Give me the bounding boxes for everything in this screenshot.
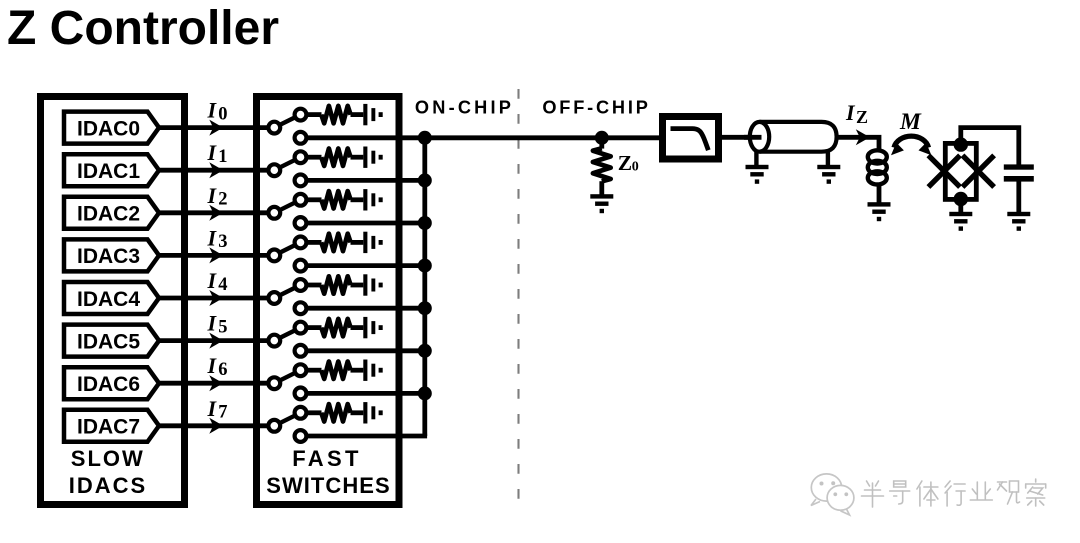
resistor R7 xyxy=(321,404,350,421)
termination bars row 6 xyxy=(363,360,367,381)
ground for capacitor xyxy=(1007,212,1030,216)
capacitor ground stem xyxy=(1016,181,1021,212)
wire into coax center conductor xyxy=(744,135,762,140)
node SQUID top xyxy=(954,137,968,151)
IDAC2 block xyxy=(64,197,159,229)
wire upper throw to resistor R1 xyxy=(307,155,322,160)
svg-text:I: I xyxy=(207,183,218,208)
watermark text (gray emboss) xyxy=(862,479,1046,507)
switch S1 upper throw contact xyxy=(295,151,307,163)
watermark logo (chat bubbles) xyxy=(811,474,854,515)
wire LPF to coax xyxy=(719,135,749,140)
ground coax left shield xyxy=(746,165,769,169)
svg-text:IDAC5: IDAC5 xyxy=(77,330,140,353)
bus junction node row 0 xyxy=(418,131,432,145)
svg-text:FAST: FAST xyxy=(292,446,362,471)
SLOW IDACS block outline xyxy=(41,97,185,505)
termination bars row 3 xyxy=(363,232,367,253)
resistor R5 xyxy=(321,319,350,336)
wire IDAC5 output to switch S5 pole xyxy=(157,338,268,343)
IDAC6 block xyxy=(64,367,159,399)
arrowhead current I1 xyxy=(209,162,223,178)
bus junction node row 6 xyxy=(418,386,432,400)
wire lower throw to output bus xyxy=(307,263,428,268)
wire upper throw to resistor R4 xyxy=(307,283,322,288)
arrowhead current I2 xyxy=(209,205,223,221)
svg-text:I: I xyxy=(207,98,218,123)
coax right shield ground stem xyxy=(826,151,830,166)
resistor R6 xyxy=(321,362,350,379)
switch S1 pole contact xyxy=(268,164,280,176)
switch S6 lower throw contact xyxy=(295,388,307,400)
svg-text:SLOW: SLOW xyxy=(71,446,145,471)
wire upper throw to resistor R7 xyxy=(307,410,322,415)
coax cable body xyxy=(760,122,837,152)
wire IDAC4 output to switch S4 pole xyxy=(157,296,268,301)
wire bus to LPF (main rail) xyxy=(425,135,662,140)
svg-text:3: 3 xyxy=(218,232,227,252)
wire lower throw to output bus xyxy=(307,306,428,311)
svg-text:0: 0 xyxy=(218,104,227,124)
svg-text:I: I xyxy=(207,140,218,165)
coax cable left end cap xyxy=(750,122,769,152)
termination bars row 0 xyxy=(363,104,367,125)
wire IDAC3 output to switch S3 pole xyxy=(157,253,268,258)
svg-text:IDAC6: IDAC6 xyxy=(77,373,140,396)
resistor Z0 (termination) xyxy=(599,138,604,149)
termination bars row 2 xyxy=(363,189,367,210)
switch S7 pole contact xyxy=(268,420,280,432)
wire lower throw to output bus xyxy=(307,135,428,140)
switch S2 lower throw contact xyxy=(295,217,307,229)
svg-text:I: I xyxy=(207,311,218,336)
arrowhead current I7 xyxy=(209,418,223,434)
svg-text:5: 5 xyxy=(218,317,227,337)
svg-text:IDACS: IDACS xyxy=(69,473,147,498)
output bus vertical wire xyxy=(422,138,427,436)
wire IDAC6 output to switch S6 pole xyxy=(157,381,268,386)
arrowhead current I4 xyxy=(209,290,223,306)
arrowhead current I3 xyxy=(209,247,223,263)
ground for Z0 xyxy=(590,194,613,198)
svg-text:IDAC4: IDAC4 xyxy=(77,288,140,311)
svg-text:IDAC3: IDAC3 xyxy=(77,245,140,268)
svg-text:M: M xyxy=(899,109,922,135)
svg-text:Z: Z xyxy=(856,107,868,127)
switch S1 lower throw contact xyxy=(295,175,307,187)
switch S5 pole contact xyxy=(268,335,280,347)
svg-text:I: I xyxy=(207,353,218,378)
wire coax to bias inductor xyxy=(837,137,879,151)
switch S4 pole contact xyxy=(268,292,280,304)
inductor L (bias coil) xyxy=(868,150,887,163)
switch S4 arm xyxy=(274,285,300,298)
svg-text:I: I xyxy=(207,396,218,421)
SQUID loop xyxy=(945,143,976,199)
switch S0 upper throw contact xyxy=(295,109,307,121)
svg-text:1: 1 xyxy=(218,147,227,167)
switch S3 pole contact xyxy=(268,250,280,262)
arrowhead current IZ xyxy=(856,129,870,145)
svg-text:I: I xyxy=(845,100,856,125)
switch S6 arm xyxy=(274,370,300,383)
on-chip / off-chip boundary (dashed divider) xyxy=(517,89,519,509)
termination bars row 4 xyxy=(363,274,367,295)
SQUID ground stem xyxy=(958,199,963,213)
wire SQUID top to capacitor xyxy=(961,128,1019,166)
bus junction node row 4 xyxy=(418,301,432,315)
bus junction node row 3 xyxy=(418,259,432,273)
svg-text:Z Controller: Z Controller xyxy=(7,2,279,55)
switch S0 arm xyxy=(274,115,300,128)
IDAC1 block xyxy=(64,154,159,186)
wire lower throw to output bus xyxy=(307,391,428,396)
resistor R2 xyxy=(321,191,350,208)
switch S0 pole contact xyxy=(268,122,280,134)
svg-text:2: 2 xyxy=(218,190,227,210)
termination bars row 7 xyxy=(363,402,367,423)
svg-text:IDAC0: IDAC0 xyxy=(77,117,140,140)
switch S1 arm xyxy=(274,157,300,170)
switch S2 upper throw contact xyxy=(295,194,307,206)
svg-text:I: I xyxy=(207,268,218,293)
capacitor C (shunt) xyxy=(1004,164,1034,169)
switch S2 arm xyxy=(274,200,300,213)
switch S5 lower throw contact xyxy=(295,345,307,357)
resistor R4 xyxy=(321,276,350,293)
switch S6 pole contact xyxy=(268,377,280,389)
arrowhead current I6 xyxy=(209,375,223,391)
svg-text:SWITCHES: SWITCHES xyxy=(266,473,391,498)
svg-text:Z: Z xyxy=(618,151,632,175)
arrowhead current I0 xyxy=(209,120,223,136)
svg-text:6: 6 xyxy=(218,360,227,380)
bus junction node row 5 xyxy=(418,344,432,358)
svg-text:4: 4 xyxy=(218,275,227,295)
svg-text:0: 0 xyxy=(632,160,639,175)
switch S6 upper throw contact xyxy=(295,364,307,376)
switch S3 arm xyxy=(274,242,300,255)
IDAC0 block xyxy=(64,112,159,144)
wire IDAC2 output to switch S2 pole xyxy=(157,210,268,215)
wire IDAC0 output to switch S0 pole xyxy=(157,125,268,130)
switch S7 upper throw contact xyxy=(295,407,307,419)
switch S3 lower throw contact xyxy=(295,260,307,272)
ground for SQUID xyxy=(949,212,972,216)
node SQUID bottom xyxy=(954,192,968,206)
termination bars row 5 xyxy=(363,317,367,338)
resistor R1 xyxy=(321,149,350,166)
mutual inductance arrow M xyxy=(894,136,929,147)
IDAC4 block xyxy=(64,282,159,314)
switch S0 lower throw contact xyxy=(295,132,307,144)
svg-text:IDAC1: IDAC1 xyxy=(77,160,140,183)
switch S5 upper throw contact xyxy=(295,322,307,334)
wire IDAC1 output to switch S1 pole xyxy=(157,168,268,173)
coax left shield ground stem xyxy=(754,151,758,166)
low-pass filter box U1 xyxy=(663,117,719,160)
switch S7 arm xyxy=(274,413,300,426)
low-pass filter response curve xyxy=(671,129,709,151)
wire IDAC7 output to switch S7 pole xyxy=(157,423,268,428)
wire lower throw to output bus xyxy=(307,221,428,226)
ground coax right shield xyxy=(817,165,840,169)
wire lower throw to output bus xyxy=(307,348,428,353)
wire lower throw to output bus xyxy=(307,178,428,183)
IDAC5 block xyxy=(64,325,159,357)
ground for inductor xyxy=(868,202,891,206)
resistor R0 xyxy=(321,106,350,123)
bus junction node row 1 xyxy=(418,173,432,187)
switch S2 pole contact xyxy=(268,207,280,219)
resistor R3 xyxy=(321,234,350,251)
FAST SWITCHES block outline xyxy=(257,97,400,505)
switch S4 lower throw contact xyxy=(295,302,307,314)
inductor ground stem xyxy=(877,184,882,204)
svg-text:IDAC7: IDAC7 xyxy=(77,416,140,439)
wire upper throw to resistor R5 xyxy=(307,325,322,330)
wire upper throw to resistor R0 xyxy=(307,112,322,117)
wire lower throw to output bus xyxy=(307,434,428,439)
IDAC3 block xyxy=(64,239,159,271)
svg-text:ON-CHIP: ON-CHIP xyxy=(415,98,514,118)
IDAC7 block xyxy=(64,410,159,442)
switch S3 upper throw contact xyxy=(295,237,307,249)
svg-text:7: 7 xyxy=(218,403,227,423)
bus junction node row 2 xyxy=(418,216,432,230)
svg-text:OFF-CHIP: OFF-CHIP xyxy=(542,98,650,118)
node Z0 junction xyxy=(595,131,609,145)
svg-text:IDAC2: IDAC2 xyxy=(77,203,140,226)
switch S7 lower throw contact xyxy=(295,430,307,442)
Josephson junction right (X) xyxy=(963,155,995,187)
Josephson junction left (X) xyxy=(928,155,960,187)
wire upper throw to resistor R2 xyxy=(307,197,322,202)
wire upper throw to resistor R3 xyxy=(307,240,322,245)
switch S5 arm xyxy=(274,328,300,341)
arrowhead current I5 xyxy=(209,333,223,349)
termination bars row 1 xyxy=(363,147,367,168)
wire upper throw to resistor R6 xyxy=(307,368,322,373)
switch S4 upper throw contact xyxy=(295,279,307,291)
svg-text:I: I xyxy=(207,225,218,250)
